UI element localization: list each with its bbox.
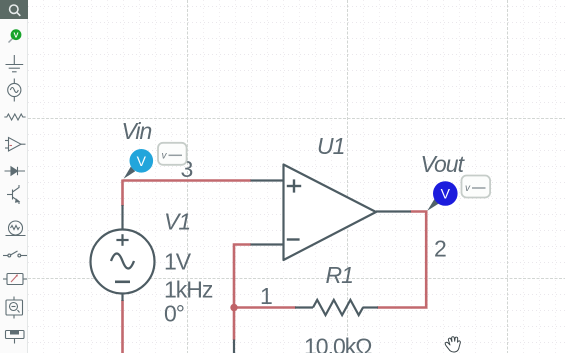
op-amp U1 triangle xyxy=(284,165,377,261)
wire node 1 horizontal to R1 xyxy=(234,306,296,309)
V1 sine wave xyxy=(111,254,134,269)
tool op-amp icon xyxy=(5,138,26,152)
tool probe icon xyxy=(9,29,22,42)
svg-text:U1: U1 xyxy=(317,133,344,159)
tool ground icon xyxy=(6,55,24,72)
svg-text:Vin: Vin xyxy=(122,118,152,144)
hand cursor xyxy=(445,337,460,352)
wire output vertical xyxy=(425,211,428,308)
junction node 1 xyxy=(230,304,237,311)
svg-text:1kHz: 1kHz xyxy=(164,277,213,303)
probe Vout circle xyxy=(433,181,458,206)
op-amp U1 lead + xyxy=(251,179,284,181)
tool connector icon xyxy=(6,331,25,344)
tool meter icon xyxy=(3,274,27,285)
toolbar header xyxy=(0,0,28,19)
svg-text:0°: 0° xyxy=(164,300,184,326)
svg-text:R1: R1 xyxy=(326,262,353,288)
wire V1 bottom down off-screen xyxy=(121,300,124,353)
V1 source top lead xyxy=(121,205,123,230)
op-amp U1 lead output xyxy=(376,210,411,212)
resistor R1 zigzag xyxy=(313,300,363,315)
resistor R1 leads xyxy=(295,306,313,308)
svg-text:1V: 1V xyxy=(164,249,192,275)
probe Vin tail xyxy=(124,167,136,179)
tool source-block icon xyxy=(6,297,23,319)
svg-text:V: V xyxy=(13,30,18,39)
op-amp - symbol xyxy=(287,238,300,240)
tool AC source icon xyxy=(8,79,21,102)
wire node 1 down to ground off-screen xyxy=(233,308,236,341)
search icon xyxy=(10,5,21,16)
tool switch icon xyxy=(3,251,27,257)
svg-text:2: 2 xyxy=(434,235,447,261)
V1 + mark xyxy=(116,234,128,246)
op-amp U1 lead - xyxy=(251,243,284,245)
wire Vin vertical down to V1 xyxy=(121,180,124,207)
svg-text:V: V xyxy=(137,153,147,169)
wire Vin horizontal to op-amp + input xyxy=(123,179,252,182)
probe Vin tag box xyxy=(158,143,187,165)
svg-text:1: 1 xyxy=(260,283,273,309)
probe Vin circle xyxy=(130,149,154,173)
wire lead ground dark segment bottom xyxy=(233,340,235,354)
probe Vout tag box xyxy=(462,176,491,198)
tool transistor icon xyxy=(7,185,19,204)
op-amp + symbol xyxy=(287,179,301,192)
svg-text:Vout: Vout xyxy=(421,151,466,177)
wire feedback from - input: left + down to node 1 xyxy=(234,245,251,309)
wire output horizontal to op-amp apex xyxy=(411,210,428,213)
tool motor icon xyxy=(6,221,26,236)
probe Vout tail xyxy=(427,199,439,211)
V1 source circle xyxy=(91,230,155,294)
tool resistor icon xyxy=(4,114,25,120)
wire R1 right to output corner xyxy=(377,306,428,309)
svg-text:V1: V1 xyxy=(164,209,190,235)
svg-text:10.0kΩ: 10.0kΩ xyxy=(304,334,372,354)
V1 - mark xyxy=(115,280,130,283)
V1 source bottom lead xyxy=(121,293,123,301)
tool diode icon xyxy=(5,167,26,175)
svg-text:V: V xyxy=(441,186,451,202)
